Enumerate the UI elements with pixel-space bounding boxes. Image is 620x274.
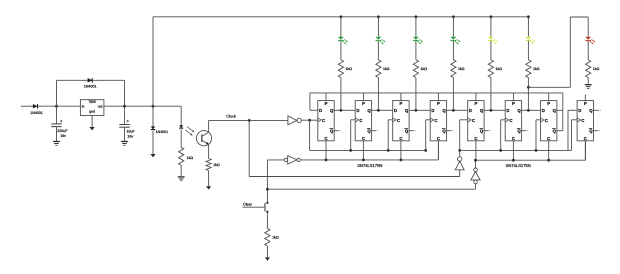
svg-text:Q: Q: [442, 108, 446, 113]
wire bypass right riser: [124, 80, 126, 106]
svg-text:10uF: 10uF: [126, 130, 135, 134]
wire FF1 clock drop: [309, 120, 311, 150]
node 5V rail junction 2: [377, 15, 380, 18]
svg-text:D: D: [394, 108, 397, 113]
node 5V rail junction: [152, 105, 155, 108]
node Q4 junction: [452, 109, 455, 112]
svg-text:C: C: [434, 118, 437, 123]
svg-text:1kΩ: 1kΩ: [187, 156, 194, 160]
wire feedback rail: [310, 93, 563, 110]
ground C1: [53, 142, 60, 146]
capacitor C1 220uF plus: [60, 119, 63, 124]
label Clear: [243, 202, 253, 206]
svg-text:Q: Q: [480, 129, 484, 134]
svg-text:D: D: [578, 108, 581, 113]
label D1 1N4001: [30, 111, 43, 115]
node 5V rail junction 6: [527, 15, 530, 18]
svg-text:Q: Q: [517, 129, 521, 134]
svg-text:SN74LS175N: SN74LS175N: [357, 163, 382, 168]
svg-text:Q: Q: [405, 108, 409, 113]
svg-text:C: C: [472, 118, 475, 123]
diode D4 opto LED: [179, 125, 183, 128]
wire clear to U2B: [267, 159, 284, 161]
wire Q1 collector: [208, 120, 210, 132]
svg-text:C: C: [581, 118, 584, 123]
node clear rail junction FF5: [474, 159, 477, 162]
node FF1 clock junction: [308, 119, 311, 122]
svg-text:Q: Q: [367, 108, 371, 113]
svg-text:C: C: [324, 136, 327, 141]
svg-text:P: P: [512, 101, 515, 106]
svg-text:Q: Q: [367, 129, 371, 134]
svg-text:16v: 16v: [60, 134, 66, 138]
node clock rail junction FF7: [535, 149, 538, 152]
svg-text:Clock: Clock: [226, 115, 236, 119]
svg-text:+: +: [60, 119, 63, 124]
transistor Q1 phototransistor: [196, 131, 211, 146]
svg-text:C: C: [322, 118, 325, 123]
svg-text:220uF: 220uF: [57, 129, 68, 133]
svg-text:C: C: [584, 136, 587, 141]
LED6 with resistor: [526, 17, 540, 111]
ground LED7: [585, 85, 592, 89]
svg-text:D: D: [319, 108, 322, 113]
diode D2 1N4001 bypass: [88, 78, 93, 82]
resistor R3 1k: [265, 228, 270, 246]
node clock junction: [248, 119, 251, 122]
node clear rail junction FF6: [512, 159, 515, 162]
svg-text:gnd: gnd: [89, 110, 95, 114]
wire S1 to R3: [266, 212, 268, 229]
label R3 1k: [272, 235, 279, 239]
resistor R2 1k: [206, 159, 211, 171]
wire chip1 clock rail: [310, 120, 431, 152]
svg-text:1kΩ: 1kΩ: [421, 67, 428, 71]
label U3 7805: [88, 100, 96, 104]
node C2 junction: [123, 105, 126, 108]
wire AC input: [21, 105, 33, 107]
svg-text:P: P: [584, 101, 587, 106]
flip-flop U2B D-type: [491, 93, 529, 160]
wire regulator out: [104, 105, 181, 107]
svg-text:C: C: [362, 136, 365, 141]
svg-text:C: C: [545, 118, 548, 123]
svg-text:1N4001: 1N4001: [30, 111, 43, 115]
wire 5V riser: [152, 17, 154, 106]
svg-text:1kΩ: 1kΩ: [496, 67, 503, 71]
svg-text:C: C: [547, 136, 550, 141]
svg-text:C: C: [397, 118, 400, 123]
wire R2 to ground: [208, 171, 210, 187]
svg-text:C: C: [399, 136, 402, 141]
op-amp U2A clock inverter: [288, 116, 302, 125]
op-amp U2D chip2 clear inverter: [471, 160, 480, 184]
svg-text:16v: 16v: [127, 134, 133, 138]
flip-flop U1A D-type: [318, 93, 341, 160]
wire D3 drop: [152, 106, 154, 126]
svg-text:D: D: [506, 108, 509, 113]
node Q1 junction: [340, 109, 343, 112]
node Q3 junction: [415, 109, 418, 112]
ground C2: [121, 142, 128, 146]
flip-flop U2A D-type: [453, 93, 491, 160]
LED4 with resistor: [451, 17, 465, 111]
wire long clock rail: [249, 170, 460, 177]
capacitor C2 10uF: [119, 106, 129, 141]
label U3 in: [82, 105, 85, 109]
node clear rail junction FF2: [362, 159, 365, 162]
svg-text:out: out: [98, 105, 103, 109]
wire chip1 clear rail: [300, 141, 438, 160]
ground U3: [90, 127, 95, 130]
switch S1: [265, 202, 269, 213]
wire clear riser: [266, 160, 268, 203]
LED5 with resistor: [488, 17, 502, 111]
LED2 with resistor: [376, 17, 390, 111]
svg-text:SN74LS175N: SN74LS175N: [506, 163, 531, 168]
node Q2 junction: [377, 109, 380, 112]
svg-text:C: C: [359, 118, 362, 123]
wire D4 to R1: [180, 130, 182, 148]
svg-text:Q: Q: [330, 108, 334, 113]
node clock rail junction FF3: [387, 149, 390, 152]
svg-text:Q: Q: [517, 108, 521, 113]
svg-text:P: P: [437, 101, 440, 106]
wire U3 gnd pin: [91, 116, 93, 128]
wire R3 to ground: [266, 246, 268, 258]
svg-text:1N4001: 1N4001: [156, 130, 169, 134]
wire feedback drop to Q7bar: [557, 93, 563, 131]
LED1 with resistor: [338, 17, 352, 111]
svg-text:C: C: [509, 118, 512, 123]
LED3 with resistor: [413, 17, 427, 111]
label C1 220uF 16v: [57, 129, 68, 138]
node clock rail junction FF2: [349, 149, 352, 152]
node clear junction: [266, 188, 269, 191]
wire D3 to ground: [152, 131, 154, 154]
svg-text:Q: Q: [589, 129, 593, 134]
LED7 red with resistor: [585, 17, 599, 84]
op-amp U2B clear inverter: [284, 156, 300, 164]
ground R3: [265, 257, 270, 260]
svg-text:Q: Q: [480, 108, 484, 113]
node clear rail junction FF7: [547, 159, 550, 162]
node clear rail junction FF3: [400, 159, 403, 162]
label R2 1k: [213, 163, 220, 167]
wire clock drop: [248, 120, 250, 176]
svg-text:1kΩ: 1kΩ: [533, 67, 540, 71]
svg-text:C: C: [512, 136, 515, 141]
ground D3: [150, 154, 155, 157]
svg-text:1kΩ: 1kΩ: [593, 67, 600, 71]
ground R2: [206, 186, 211, 189]
svg-text:1kΩ: 1kΩ: [213, 163, 220, 167]
node Q5 junction: [490, 109, 493, 112]
wire clear stub: [243, 206, 265, 208]
svg-text:P: P: [325, 101, 328, 106]
svg-text:D: D: [356, 108, 359, 113]
label U3 gnd: [89, 110, 95, 114]
svg-text:1kΩ: 1kΩ: [458, 67, 465, 71]
svg-text:C: C: [437, 136, 440, 141]
svg-text:Q: Q: [553, 108, 557, 113]
diode D1 1N4001: [33, 104, 57, 108]
wire chip2 clear rail: [476, 141, 586, 160]
label SN74LS175N chip2: [506, 163, 531, 168]
wire Q1 emitter to R2: [208, 144, 210, 158]
diode D3 1N4001: [151, 126, 155, 129]
svg-text:P: P: [362, 101, 365, 106]
svg-text:C: C: [474, 136, 477, 141]
svg-text:P: P: [399, 101, 402, 106]
capacitor C1 220uF: [51, 106, 61, 141]
svg-text:Q: Q: [589, 108, 593, 113]
node chip2 clock inverter junction: [458, 149, 461, 152]
flip-flop U2C D-type: [528, 93, 562, 160]
svg-text:Clear: Clear: [243, 202, 253, 206]
node 5V rail junction 3: [415, 15, 418, 18]
wire U2A out to FF1 clock: [301, 119, 317, 121]
flip-flop U2D D-type: [568, 95, 601, 161]
svg-text:+: +: [127, 119, 130, 124]
ground R1: [178, 177, 185, 181]
svg-text:1kΩ: 1kΩ: [383, 67, 390, 71]
svg-text:D: D: [431, 108, 434, 113]
wire long clear rail: [267, 184, 475, 190]
capacitor C2 10uF plus: [127, 119, 130, 124]
light arrows: [185, 127, 194, 136]
svg-text:Q: Q: [405, 129, 409, 134]
node clear rail junction FF1: [325, 159, 328, 162]
node Q6 junction: [527, 109, 530, 112]
wire bypass top: [57, 79, 125, 81]
svg-text:Q: Q: [553, 129, 557, 134]
wire 5V top rail: [153, 16, 528, 18]
svg-text:P: P: [474, 101, 477, 106]
node clock rail junction FF6: [499, 149, 502, 152]
op-amp U3 7805 box: [80, 100, 104, 116]
node 5V rail junction 4: [452, 15, 455, 18]
svg-text:P: P: [547, 101, 550, 106]
svg-text:in: in: [82, 105, 85, 109]
wire LED D4 drop: [180, 106, 182, 125]
label D2 1N4001: [84, 85, 97, 89]
resistor R1 1k: [179, 147, 184, 165]
wire R1 to ground: [180, 165, 182, 176]
svg-text:1N4001: 1N4001: [84, 85, 97, 89]
svg-text:1kΩ: 1kΩ: [346, 67, 353, 71]
wire main rail to regulator: [57, 105, 81, 107]
wire chip2 clock rail: [460, 120, 577, 151]
flip-flop U1B D-type: [341, 93, 379, 160]
svg-text:D: D: [542, 108, 545, 113]
label D3 1N4001: [156, 130, 169, 134]
node 5V rail junction 1: [340, 15, 343, 18]
wire bypass left riser: [56, 80, 58, 106]
svg-text:D: D: [469, 108, 472, 113]
node 5V rail junction 5: [490, 15, 493, 18]
svg-text:1kΩ: 1kΩ: [272, 235, 279, 239]
flip-flop U1D D-type: [416, 93, 454, 160]
wire clock horizontal: [209, 119, 288, 121]
node bypass-left junction: [55, 105, 58, 108]
label R1 1k: [187, 156, 194, 160]
svg-text:Q: Q: [442, 129, 446, 134]
label U3 out: [98, 105, 103, 109]
label SN74LS175N chip1: [357, 163, 382, 168]
wire red feed: [528, 17, 588, 87]
node red feed junction: [527, 86, 530, 89]
svg-text:7805: 7805: [88, 100, 96, 104]
svg-text:Q: Q: [330, 129, 334, 134]
label Clock: [226, 115, 236, 119]
op-amp U2C chip2 clock inverter: [455, 150, 464, 169]
flip-flop U1C D-type: [378, 93, 416, 160]
label C2 10uF 16v: [126, 130, 135, 139]
